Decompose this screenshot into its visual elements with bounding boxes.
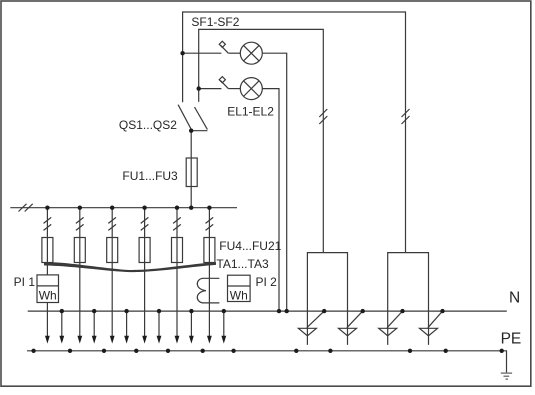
svg-text:SF1-SF2: SF1-SF2 xyxy=(191,15,239,29)
svg-text:TA1...TA3: TA1...TA3 xyxy=(216,257,269,271)
svg-text:EL1-EL2: EL1-EL2 xyxy=(227,104,274,118)
svg-text:N: N xyxy=(509,290,520,307)
svg-text:FU1...FU3: FU1...FU3 xyxy=(122,169,178,183)
svg-text:PE: PE xyxy=(501,330,522,347)
svg-text:PI 2: PI 2 xyxy=(256,275,278,289)
svg-text:Wh: Wh xyxy=(230,288,248,302)
svg-text:FU4...FU21: FU4...FU21 xyxy=(219,239,281,253)
svg-text:Wh: Wh xyxy=(39,288,57,302)
svg-text:PI 1: PI 1 xyxy=(14,275,36,289)
svg-text:QS1...QS2: QS1...QS2 xyxy=(119,118,177,132)
